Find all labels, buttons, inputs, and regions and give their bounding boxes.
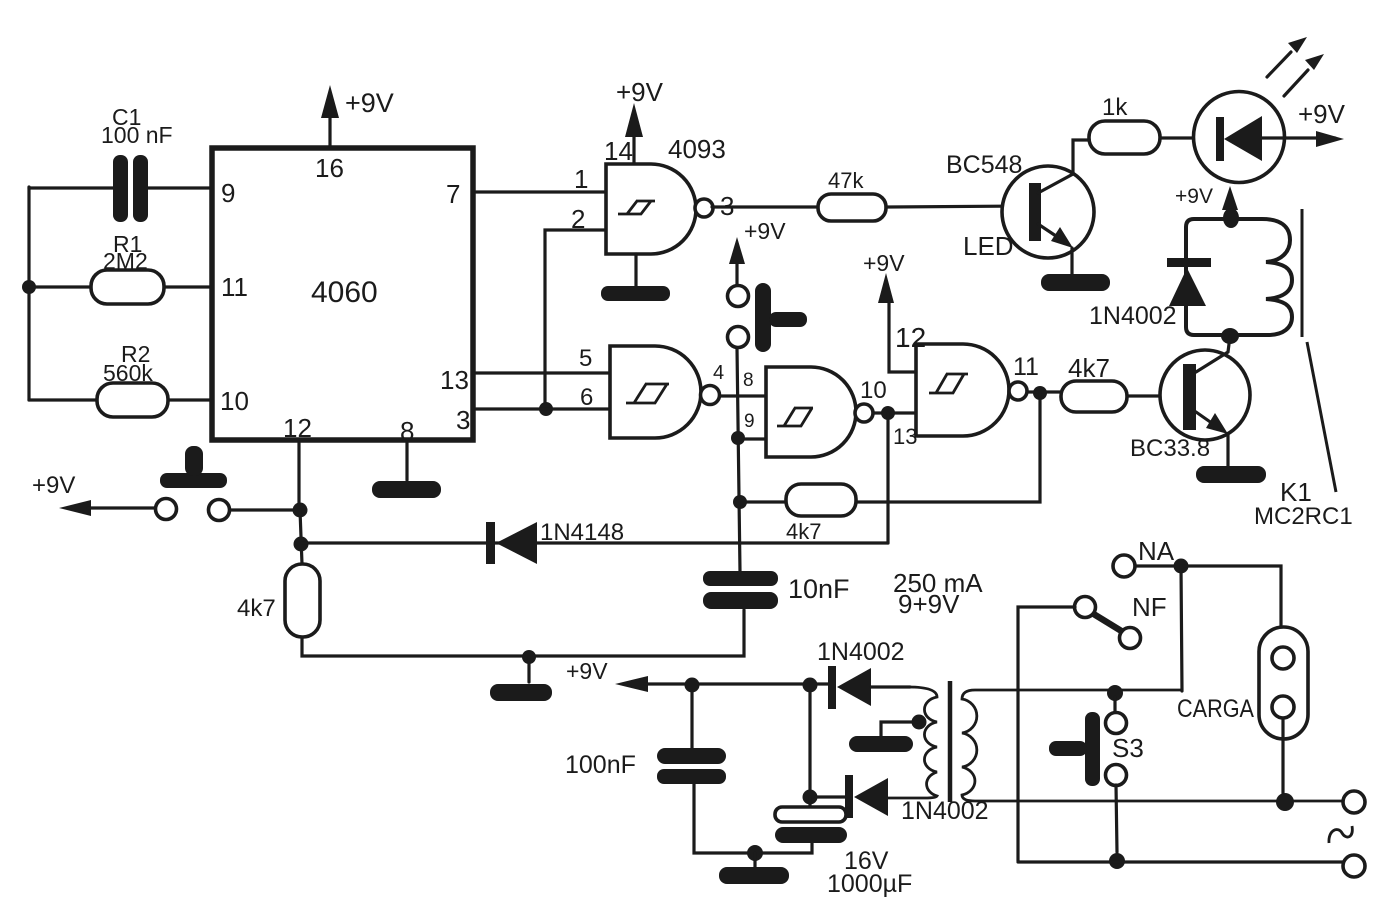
- +9V supply arrow above S2: [729, 218, 786, 284]
- op-amp U2B NAND gate: [579, 345, 724, 438]
- transistor Q1 BC548: [946, 140, 1094, 277]
- node S3 top junction: [1107, 685, 1123, 701]
- node feedback left junction: [733, 495, 747, 509]
- node pin 9 junction: [731, 431, 745, 445]
- wire 4k7 bottom to 10nF bottom: [302, 610, 744, 656]
- wire NF left and down to bottom rail: [1018, 607, 1075, 861]
- +9V supply arrow at relay coil: [1175, 185, 1238, 210]
- resistor R1: [29, 231, 214, 304]
- svg-text:4k7: 4k7: [1068, 353, 1110, 383]
- transformer primary winding and AC wires: [962, 690, 1343, 801]
- node left rail / R1 junction: [22, 280, 36, 294]
- capacitor C1: [29, 104, 214, 222]
- op-amp U2C NAND gate: [743, 367, 917, 457]
- svg-text:5: 5: [579, 345, 592, 372]
- diode D5 1N4148: [302, 519, 888, 564]
- svg-text:4: 4: [713, 362, 724, 384]
- svg-text:9: 9: [744, 411, 755, 432]
- svg-text:2M2: 2M2: [103, 248, 148, 274]
- svg-text:10: 10: [860, 377, 887, 404]
- ground at pin 8: [372, 443, 441, 498]
- svg-text:6: 6: [580, 384, 593, 411]
- capacitor C electrolytic 1000uF: [775, 797, 912, 898]
- svg-text:CARGA: CARGA: [1177, 695, 1254, 723]
- node center tap: [912, 715, 927, 730]
- +9V supply arrow at pin 12: [863, 250, 926, 353]
- svg-text:NF: NF: [1132, 592, 1167, 622]
- svg-text:4060: 4060: [311, 276, 378, 309]
- svg-text:1k: 1k: [1102, 94, 1128, 121]
- svg-text:2: 2: [571, 204, 585, 234]
- svg-text:+9V: +9V: [616, 77, 664, 107]
- AC output terminal 2: [1343, 855, 1365, 877]
- svg-text:11: 11: [221, 272, 248, 302]
- resistor R2: [29, 341, 214, 417]
- wire 100nF bottom to ground rail: [694, 784, 812, 853]
- resistor 4k7 base BC338: [1061, 353, 1127, 412]
- node diode bridge left: [803, 678, 818, 693]
- wire gate 3 output to gate 4 pin 13: [873, 411, 916, 414]
- svg-text:1N4148: 1N4148: [540, 519, 624, 546]
- svg-text:4k7: 4k7: [237, 595, 276, 622]
- node gate 3 output junction: [881, 406, 895, 420]
- +9V arrow bottom rail: [566, 658, 828, 692]
- svg-text:100 nF: 100 nF: [101, 122, 173, 148]
- wire pin 13 to gate 2 pin 5: [476, 371, 610, 374]
- svg-text:BC33.8: BC33.8: [1130, 435, 1210, 462]
- diode D4 1N4002 bottom: [816, 775, 989, 825]
- svg-text:16: 16: [315, 153, 344, 183]
- connector CARGA: [1177, 627, 1308, 739]
- resistor 4k7 timing: [237, 564, 320, 637]
- center tap ground: [849, 722, 918, 752]
- svg-text:9+9V: 9+9V: [898, 589, 960, 619]
- wire 1k to LED: [1160, 136, 1216, 139]
- svg-text:S3: S3: [1112, 733, 1144, 763]
- capacitor 10nF: [703, 571, 850, 609]
- wire left rail: [27, 187, 30, 400]
- relay contact NA: [1113, 536, 1175, 577]
- wire gate 2 output to gate 3 pin 8: [720, 394, 766, 397]
- svg-text:1N4002: 1N4002: [1089, 302, 1177, 330]
- relay contact NF: [1075, 592, 1167, 649]
- wire pin 9 to gate 3: [745, 437, 766, 440]
- ground bottom rail: [719, 853, 789, 884]
- ground below BC338: [1196, 466, 1266, 483]
- node S1 / pin 12: [293, 503, 308, 518]
- svg-text:+9V: +9V: [863, 250, 905, 276]
- svg-text:8: 8: [743, 370, 754, 391]
- svg-text:+9V: +9V: [566, 658, 608, 684]
- node 1N4148 junction: [294, 537, 309, 552]
- wire pin 12 down: [297, 443, 300, 505]
- wire NA node down: [1181, 566, 1182, 691]
- svg-text:+9V: +9V: [345, 88, 394, 118]
- wire S2 lower circle down through 10nF node: [737, 348, 740, 571]
- svg-text:+9V: +9V: [1175, 185, 1213, 208]
- ground below BC548: [1041, 274, 1110, 291]
- svg-text:LED: LED: [963, 231, 1014, 261]
- ground on 656 rail: [490, 657, 552, 701]
- node relay coil bottom: [1221, 328, 1239, 344]
- svg-text:11: 11: [1013, 353, 1039, 381]
- svg-text:+9V: +9V: [744, 218, 786, 244]
- diode D2 1N4002 across coil: [1089, 258, 1211, 330]
- svg-text:1N4002: 1N4002: [817, 638, 905, 666]
- wire 4k7 to BC338 base: [1127, 394, 1183, 397]
- transformer secondary winding: [886, 687, 937, 798]
- node gate 4 output: [1033, 386, 1047, 400]
- svg-text:100nF: 100nF: [565, 751, 636, 779]
- svg-text:4093: 4093: [668, 134, 726, 164]
- relay mechanical link lines: [1302, 209, 1336, 492]
- bottom AC rail: [1018, 860, 1343, 863]
- svg-text:13: 13: [440, 365, 469, 395]
- LED light arrows: [1267, 37, 1324, 96]
- ground below gate 1: [601, 254, 670, 301]
- op-amp U1 4060 IC body: [212, 148, 473, 446]
- svg-text:3: 3: [456, 405, 470, 435]
- wire pin 2 vertical tie: [545, 230, 606, 409]
- pushbutton S1: [32, 446, 295, 521]
- wire bridge mid vertical: [808, 692, 811, 797]
- wire pin 7 to gate 1 input: [476, 190, 606, 193]
- svg-text:+9V: +9V: [32, 472, 75, 499]
- wire feedback from gate4 output down and left: [740, 393, 1040, 502]
- node NA junction: [1174, 559, 1189, 574]
- node D4 junction: [803, 790, 818, 805]
- AC tilde symbol: [1329, 826, 1352, 843]
- node relay coil top: [1223, 208, 1239, 228]
- +9V supply arrow at gate 1 pin 14: [616, 77, 664, 163]
- svg-text:10nF: 10nF: [788, 574, 850, 604]
- resistor 4k7 feedback: [786, 484, 856, 544]
- wire CARGA bottom down: [1281, 718, 1284, 793]
- diode D3 1N4002 top: [817, 638, 905, 709]
- relay coil K1: [1186, 219, 1292, 335]
- LED D1: [1194, 92, 1346, 183]
- wire gate4 out to 4k7 base resistor: [1027, 390, 1061, 393]
- transistor Q2 BC338: [1130, 336, 1250, 467]
- wire pin 3 to gate 2 pin 6: [476, 407, 610, 410]
- svg-text:4k7: 4k7: [786, 519, 821, 544]
- svg-text:1000µF: 1000µF: [827, 870, 912, 898]
- svg-text:47k: 47k: [828, 168, 864, 193]
- wire gate 1 output to 47k: [712, 205, 818, 208]
- svg-text:13: 13: [893, 424, 917, 449]
- svg-text:14: 14: [604, 136, 633, 166]
- wire S1 node down: [300, 510, 302, 564]
- node S3 bottom junction: [1109, 853, 1125, 869]
- op-amp U2D NAND gate: [916, 344, 1039, 436]
- node pin2/pin6 junction: [539, 402, 553, 416]
- wire D3 to transformer secondary top: [871, 685, 910, 688]
- resistor 1k: [1089, 94, 1160, 154]
- svg-text:12: 12: [895, 322, 926, 353]
- svg-text:BC548: BC548: [946, 151, 1022, 179]
- node ground tap: [522, 650, 536, 664]
- svg-text:+9V: +9V: [1298, 99, 1346, 129]
- svg-text:560k: 560k: [103, 360, 153, 386]
- node ground bottom: [747, 845, 763, 861]
- svg-text:9: 9: [221, 178, 235, 208]
- svg-text:10: 10: [220, 386, 249, 416]
- +9V supply arrow at pin 16: [321, 85, 394, 146]
- wire +9V to gate 4 pin 12: [889, 302, 916, 372]
- pushbutton S3: [1049, 697, 1144, 852]
- op-amp U2A NAND gate 4093: [571, 134, 734, 254]
- transformer T1 core: [948, 681, 953, 802]
- wire junction down to 1N4148 line: [886, 413, 889, 543]
- svg-text:12: 12: [283, 413, 312, 443]
- pushbutton S2 circles: [728, 283, 808, 352]
- node CARGA / AC junction: [1276, 793, 1294, 811]
- svg-text:1: 1: [574, 164, 588, 194]
- node 100nF tap: [685, 678, 700, 693]
- wire 47k to BC548 base: [886, 206, 1029, 207]
- AC output terminal 1: [1343, 791, 1365, 813]
- svg-text:NA: NA: [1138, 536, 1175, 566]
- capacitor 100nF: [565, 692, 726, 784]
- wire NA to CARGA top: [1181, 566, 1281, 647]
- resistor 47k: [818, 168, 886, 221]
- svg-text:MC2RC1: MC2RC1: [1254, 503, 1353, 530]
- svg-text:7: 7: [446, 179, 460, 209]
